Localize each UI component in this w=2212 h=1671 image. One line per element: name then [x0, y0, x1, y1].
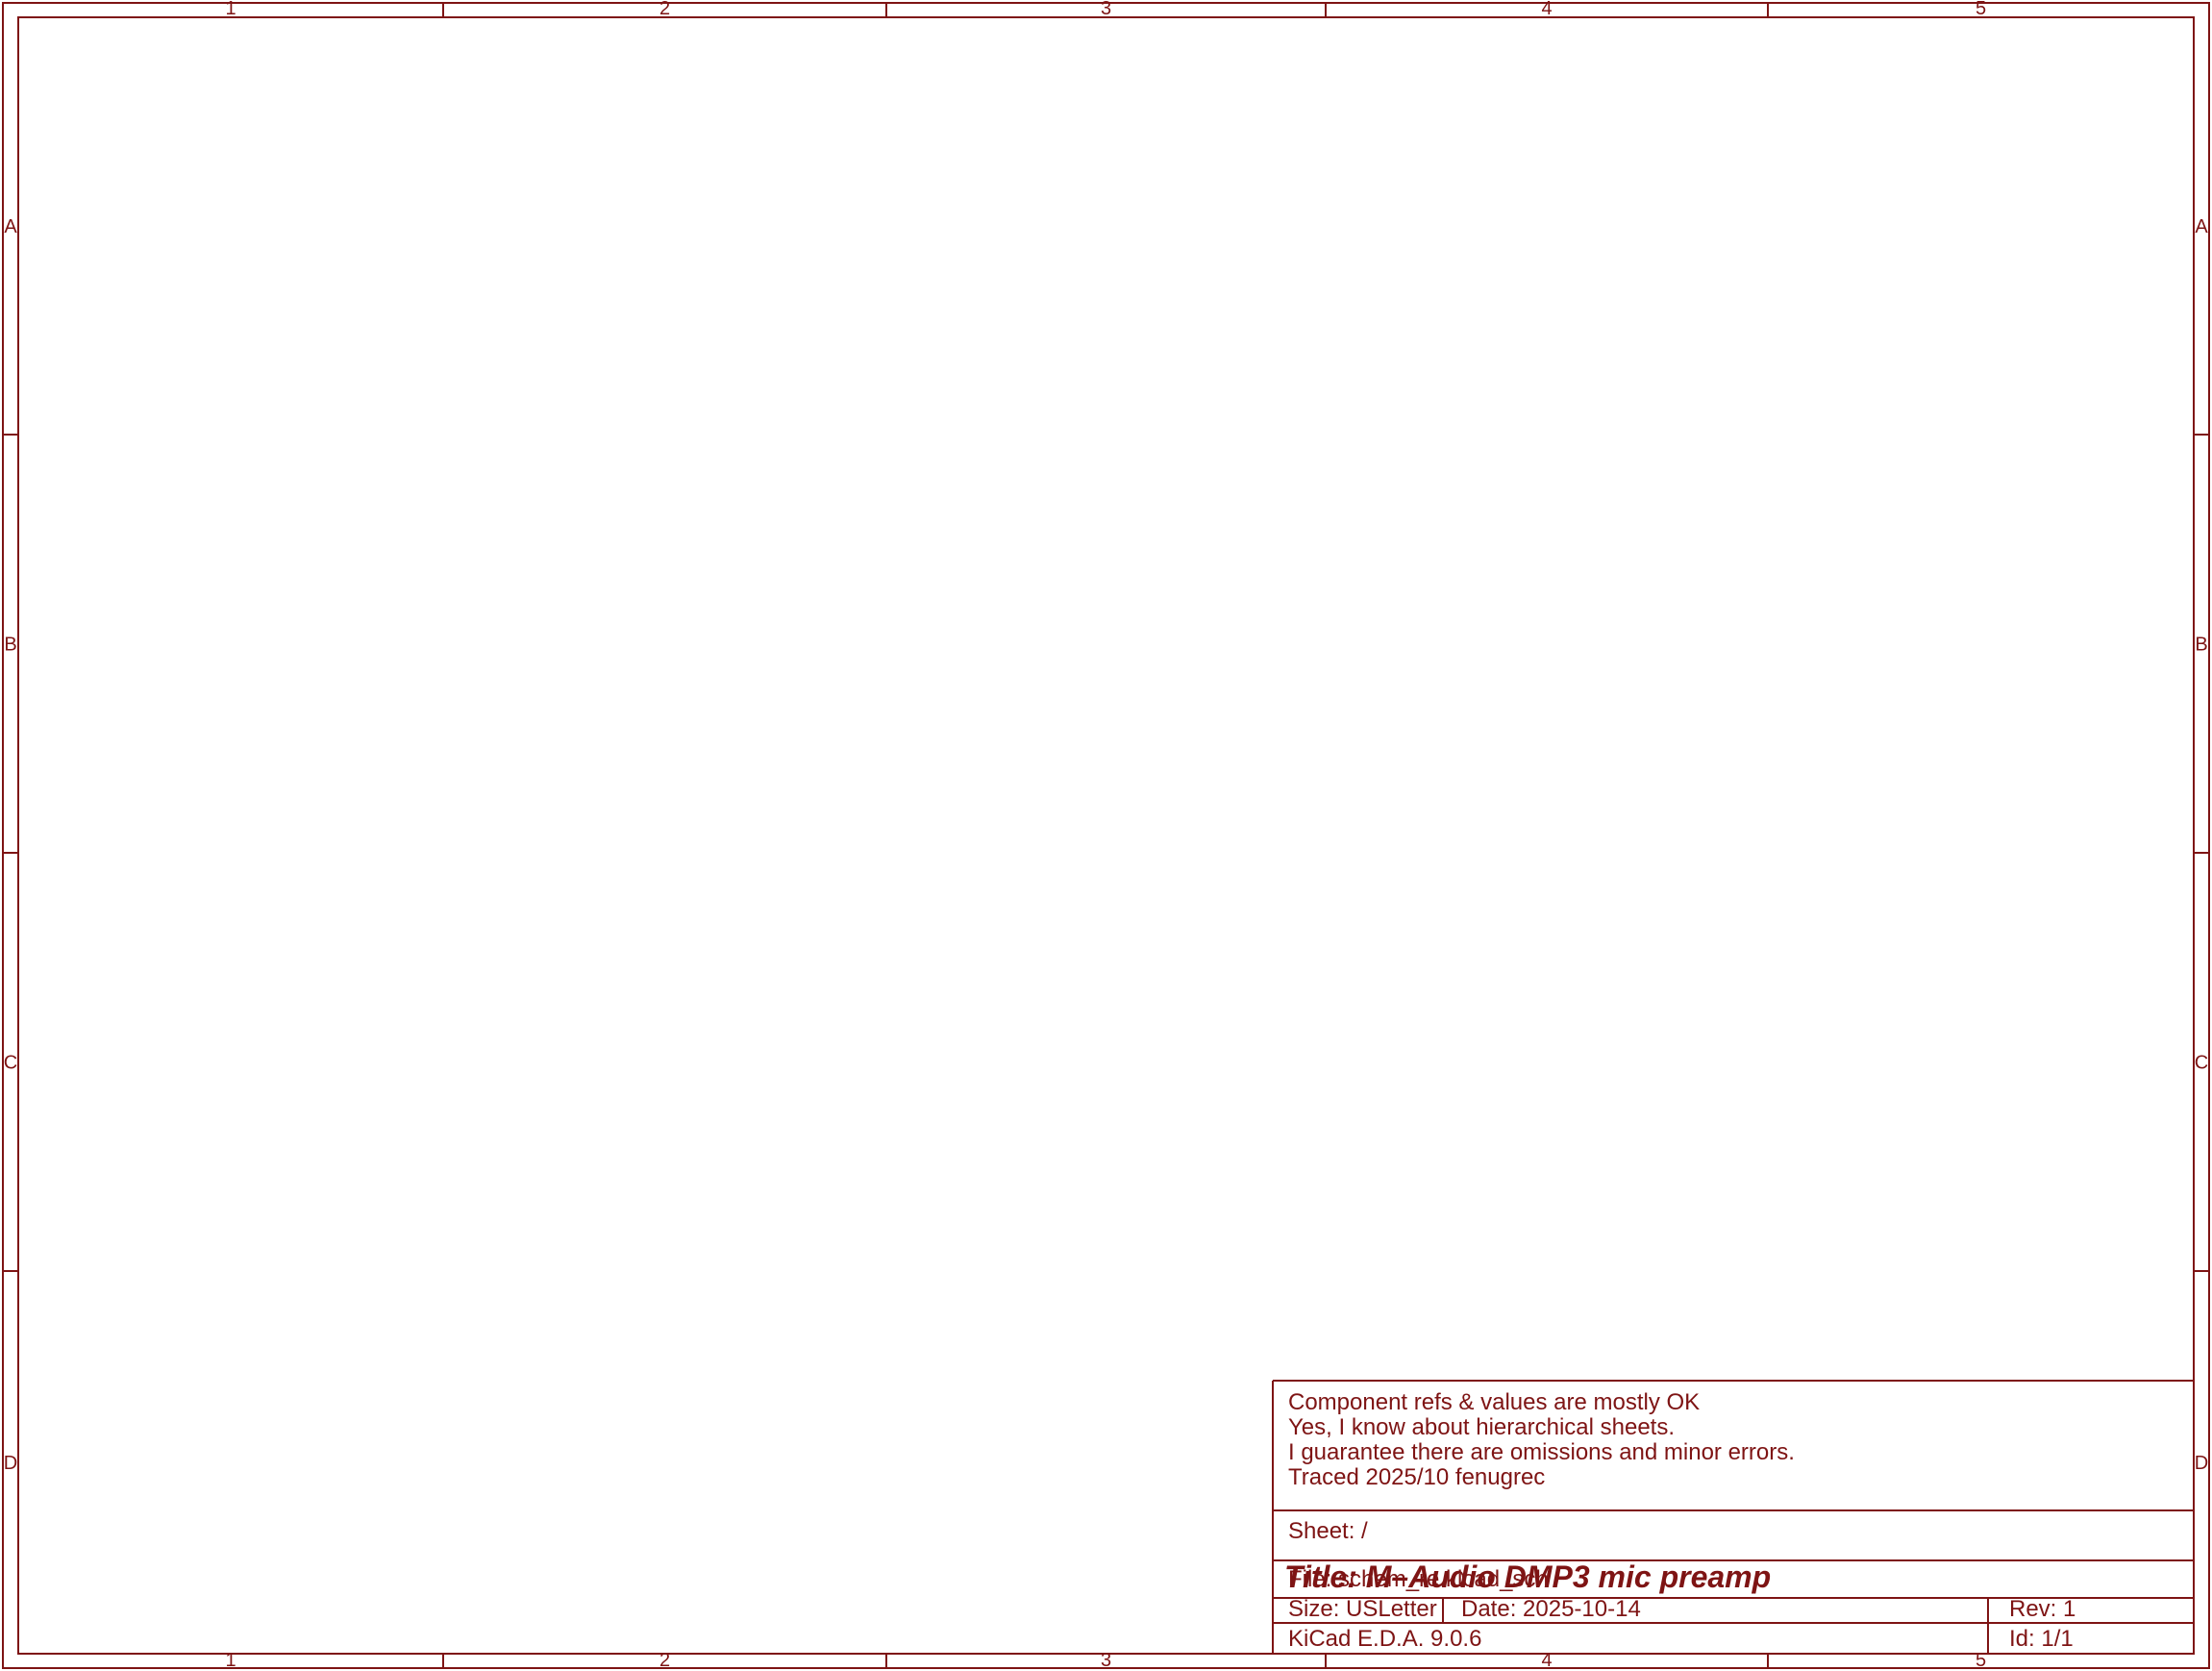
svg-text:Size: USLetter: Size: USLetter: [1288, 1596, 1437, 1622]
svg-text:5: 5: [1976, 0, 1986, 19]
svg-text:2: 2: [659, 0, 670, 19]
svg-text:Yes, I know about hierarchical: Yes, I know about hierarchical sheets.: [1288, 1414, 1675, 1440]
svg-text:Date: 2025-10-14: Date: 2025-10-14: [1461, 1596, 1641, 1622]
svg-text:D: D: [2195, 1453, 2208, 1474]
svg-text:Title: M–Audio DMP3 mic preamp: Title: M–Audio DMP3 mic preamp: [1284, 1559, 1771, 1594]
svg-text:D: D: [4, 1453, 17, 1474]
svg-text:A: A: [4, 216, 17, 237]
svg-text:Id: 1/1: Id: 1/1: [2009, 1626, 2074, 1652]
svg-text:Component refs & values are mo: Component refs & values are mostly OK: [1288, 1389, 1700, 1415]
svg-text:1: 1: [225, 1650, 236, 1671]
svg-text:KiCad E.D.A. 9.0.6: KiCad E.D.A. 9.0.6: [1288, 1626, 1481, 1652]
svg-text:3: 3: [1101, 1650, 1111, 1671]
svg-text:3: 3: [1101, 0, 1111, 19]
svg-text:4: 4: [1541, 0, 1552, 19]
svg-text:C: C: [2195, 1053, 2208, 1074]
svg-text:Rev: 1: Rev: 1: [2009, 1596, 2075, 1622]
svg-text:Sheet: /: Sheet: /: [1288, 1518, 1368, 1544]
svg-text:2: 2: [659, 1650, 670, 1671]
svg-text:I guarantee there are omission: I guarantee there are omissions and mino…: [1288, 1439, 1795, 1465]
svg-text:Traced 2025/10 fenugrec: Traced 2025/10 fenugrec: [1288, 1464, 1545, 1490]
svg-text:B: B: [2195, 635, 2207, 656]
svg-text:A: A: [2195, 216, 2208, 237]
svg-text:4: 4: [1541, 1650, 1552, 1671]
svg-text:C: C: [4, 1053, 17, 1074]
svg-text:5: 5: [1976, 1650, 1986, 1671]
svg-text:1: 1: [225, 0, 236, 19]
title block: [1273, 1380, 2194, 1382]
svg-text:B: B: [4, 635, 16, 656]
